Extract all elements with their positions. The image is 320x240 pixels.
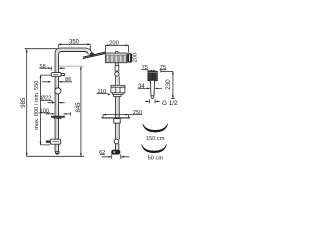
dimension 350 — [58, 44, 90, 50]
swivel cover notch — [115, 52, 118, 54]
dimension diameter 22 — [41, 101, 65, 103]
dimension 58 — [39, 67, 65, 71]
dimension max 800 min 550 — [41, 75, 52, 145]
svg-text:50 cm: 50 cm — [148, 155, 164, 161]
svg-text:86: 86 — [65, 77, 71, 83]
dimension 250 — [103, 115, 142, 118]
svg-text:250: 250 — [133, 110, 142, 116]
wall mount block — [111, 85, 125, 87]
hose curve 50 cm — [142, 145, 167, 153]
hand shower: dimension 75 75 — [142, 68, 167, 72]
arrow 845 up — [80, 66, 82, 69]
svg-text:G 1/2: G 1/2 — [162, 100, 178, 107]
arrow 845 down — [80, 153, 82, 156]
detail pipe — [116, 97, 120, 140]
wire 845 dimension line — [80, 66, 82, 156]
dimension 110 — [97, 93, 107, 95]
head side profile — [128, 53, 133, 62]
svg-text:max. 800 / min. 550: max. 800 / min. 550 — [34, 81, 40, 130]
230 top extension — [161, 71, 173, 73]
svg-text:350: 350 — [69, 40, 80, 46]
svg-text:75: 75 — [141, 65, 147, 71]
svg-text:110: 110 — [97, 89, 106, 95]
ball joint lower detail — [114, 139, 119, 144]
dimension 62 — [100, 154, 129, 159]
dimension 34 — [138, 87, 162, 89]
svg-text:Ø22: Ø22 — [41, 96, 52, 102]
hose curve 150 cm — [143, 124, 168, 132]
soap shelf — [102, 117, 131, 119]
dimension 230 — [171, 72, 175, 99]
stem below ball — [116, 76, 120, 85]
overhead shower plate (column view) — [83, 52, 106, 58]
bottom elbow — [111, 150, 120, 155]
svg-text:62: 62 — [99, 150, 105, 156]
wire gray extension line — [59, 65, 83, 67]
water inlet tee — [51, 116, 65, 118]
hand shower head — [148, 71, 157, 81]
stem above ball — [116, 63, 119, 71]
arrow 985 up — [26, 49, 28, 52]
arrow 985 down — [26, 153, 28, 156]
dimension 86 — [42, 81, 72, 83]
slider bracket — [51, 73, 61, 77]
ball joint detail column — [115, 72, 119, 76]
diverter block — [50, 139, 61, 144]
shower riser pipe — [55, 57, 58, 152]
dimension G1/2 — [145, 99, 160, 103]
svg-text:100: 100 — [40, 108, 49, 114]
svg-text:75: 75 — [160, 65, 166, 71]
svg-text:200: 200 — [109, 40, 119, 46]
svg-text:845: 845 — [76, 102, 82, 113]
ball joint of arm — [90, 53, 94, 57]
ball joint on riser — [55, 88, 61, 94]
wire 985 dimension line — [26, 49, 28, 156]
bottom outlet cap — [55, 152, 59, 154]
svg-text:230: 230 — [165, 79, 172, 90]
hand shower handle — [151, 81, 155, 96]
svg-text:34: 34 — [138, 84, 145, 90]
dimension 100 — [39, 112, 71, 115]
svg-text:200: 200 — [133, 53, 139, 62]
pipe shading — [56, 56, 58, 152]
overhead shower head detail — [106, 53, 128, 63]
wire top extension line 985 — [25, 48, 57, 50]
detail view: dimension 200 top — [105, 45, 128, 53]
svg-text:985: 985 — [21, 97, 27, 108]
svg-text:58: 58 — [39, 64, 45, 70]
shower arm — [55, 48, 92, 57]
svg-text:150 cm: 150 cm — [146, 136, 165, 142]
wire bottom extension line — [27, 155, 84, 157]
detail pipe lower — [116, 144, 119, 150]
